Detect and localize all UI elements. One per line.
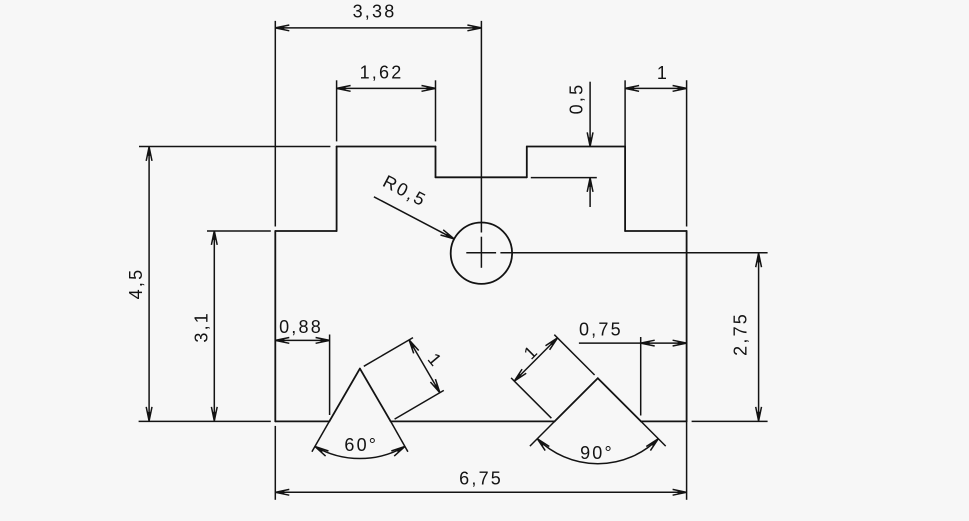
svg-text:0,75: 0,75: [579, 319, 623, 339]
svg-text:90°: 90°: [580, 443, 614, 463]
svg-text:3,38: 3,38: [353, 1, 397, 21]
svg-text:3,1: 3,1: [192, 311, 212, 343]
svg-text:1: 1: [657, 63, 667, 83]
svg-text:4,5: 4,5: [126, 268, 146, 300]
svg-text:60°: 60°: [344, 435, 378, 455]
svg-text:6,75: 6,75: [459, 469, 503, 489]
svg-text:2,75: 2,75: [731, 312, 751, 356]
svg-text:0,5: 0,5: [567, 83, 587, 115]
svg-text:0,88: 0,88: [279, 317, 323, 337]
svg-text:1,62: 1,62: [360, 63, 404, 83]
